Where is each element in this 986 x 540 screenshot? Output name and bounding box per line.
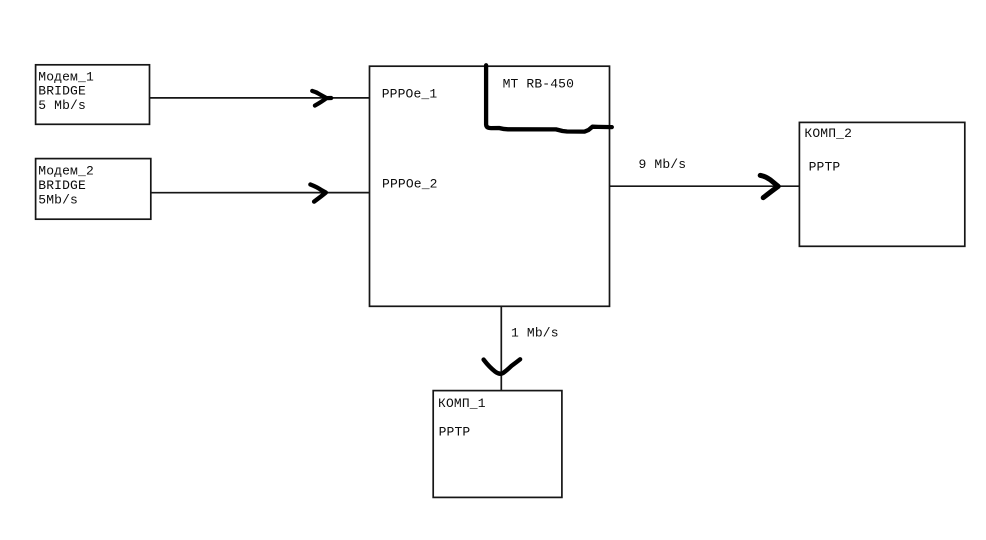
- box КОМП_2: [799, 122, 964, 246]
- marker stroke around MT RB-450: [486, 65, 612, 131]
- svg-text:КОМП_2: КОМП_2: [804, 126, 852, 141]
- arrowhead on wire 1: [312, 91, 331, 106]
- box router MT RB-450: [370, 66, 610, 306]
- wire router to КОМП_2: [610, 185, 800, 187]
- box Модем_1: [36, 65, 150, 125]
- box КОМП_1: [433, 391, 562, 498]
- svg-text:9 Mb/s: 9 Mb/s: [639, 157, 687, 172]
- svg-text:PPTP: PPTP: [439, 425, 471, 440]
- svg-text:1 Mb/s: 1 Mb/s: [511, 326, 559, 341]
- svg-text:5Mb/s: 5Mb/s: [38, 193, 78, 208]
- svg-text:Модем_2: Модем_2: [38, 164, 94, 179]
- svg-text:5 Mb/s: 5 Mb/s: [38, 98, 86, 113]
- wire router to КОМП_1: [500, 306, 502, 390]
- arrowhead on wire 2: [310, 185, 325, 202]
- svg-text:КОМП_1: КОМП_1: [438, 396, 486, 411]
- svg-text:PPTP: PPTP: [809, 160, 841, 175]
- svg-text:BRIDGE: BRIDGE: [38, 84, 86, 99]
- svg-text:Модем_1: Модем_1: [38, 70, 94, 85]
- svg-text:BRIDGE: BRIDGE: [38, 178, 86, 193]
- arrowhead on wire to КОМП_1: [484, 359, 520, 373]
- wire Модем_1 to router: [150, 97, 370, 99]
- svg-text:PPPOe_2: PPPOe_2: [382, 177, 438, 192]
- box Модем_2: [36, 159, 151, 220]
- arrowhead on wire to КОМП_2: [760, 175, 778, 197]
- wire Модем_2 to router: [151, 192, 370, 194]
- svg-text:PPPOe_1: PPPOe_1: [382, 87, 438, 102]
- svg-text:MT RB-450: MT RB-450: [503, 76, 574, 91]
